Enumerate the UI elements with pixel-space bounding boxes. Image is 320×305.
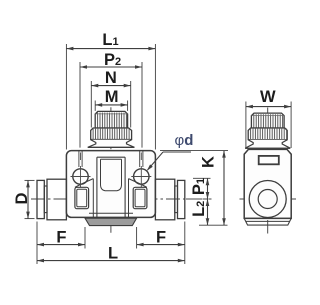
dimension M line (95, 104, 127, 106)
svg-text:L: L (108, 244, 118, 262)
F / L extension lines (36, 222, 38, 265)
side body outline (244, 149, 291, 218)
dimension D extension lines (25, 179, 35, 181)
front vertical centerline (110, 107, 112, 233)
right fitting neck (175, 186, 178, 213)
dimension F left line (37, 244, 85, 246)
svg-text:F: F (156, 229, 166, 247)
front horizontal centerline (31, 198, 212, 200)
bottom boss (shaded) (85, 218, 137, 225)
dimension W line (246, 106, 291, 108)
knob seat line (88, 146, 135, 148)
dimension K extension lines (160, 150, 228, 152)
dimension D line (27, 180, 29, 218)
dimension L2 line (207, 199, 209, 225)
side horizontal centerline (240, 198, 297, 200)
dimension F right line (137, 244, 185, 246)
dimension M extension lines (94, 101, 96, 111)
central valve bore (inner) (101, 159, 122, 191)
dimension W extension lines (245, 102, 247, 149)
screw right (134, 169, 149, 184)
svg-text:φd: φd (175, 132, 194, 149)
svg-text:F: F (56, 229, 66, 247)
body bottom inner line (89, 212, 133, 214)
left fitting release button (37, 180, 44, 218)
dimension L1 line (66, 48, 155, 50)
valve body outline (66, 151, 155, 218)
svg-text:D: D (13, 192, 31, 204)
svg-text:K: K (200, 156, 218, 168)
left window inner (77, 189, 87, 207)
left fitting neck (44, 186, 47, 213)
right fitting release button (178, 180, 185, 218)
dimension L line (37, 260, 185, 262)
right fitting cylinder (155, 179, 174, 220)
side vertical centerline (267, 108, 269, 234)
svg-text:N: N (105, 69, 117, 87)
leader line for phi d (163, 151, 191, 153)
side port inner circle (258, 190, 277, 209)
left screw slot (78, 151, 80, 167)
left screw pocket contour (75, 179, 93, 188)
right window inner (135, 189, 145, 207)
side knob lower knurled band (248, 128, 287, 140)
screw left (73, 169, 88, 184)
knob upper knurled band (95, 111, 127, 128)
dimension P2 line (80, 66, 142, 68)
side knob skirt (245, 140, 290, 148)
svg-text:M: M (105, 88, 119, 106)
right screw slot (139, 151, 141, 167)
side knob upper knurled band (251, 113, 284, 128)
left window outer (75, 187, 89, 208)
knob lower knurled band (91, 128, 132, 140)
dimension N line (91, 85, 130, 87)
dimension P1 extension line (193, 177, 211, 179)
side window (259, 156, 279, 164)
right screw pocket contour (129, 179, 147, 188)
central valve channel walls (96, 157, 98, 217)
side bottom band (244, 217, 291, 219)
dimension L1 extension lines (65, 44, 67, 150)
side knob seat line (245, 147, 290, 149)
side port outer circle (249, 181, 286, 218)
bottom port walls (92, 179, 94, 218)
dimension P2 extension lines (79, 62, 81, 148)
dimension N extension lines (90, 81, 92, 128)
svg-text:W: W (260, 88, 276, 106)
dimension P1 line (207, 178, 209, 199)
knob skirt (88, 140, 135, 148)
dimension K line (223, 151, 225, 226)
left fitting cylinder (47, 179, 66, 220)
right window outer (133, 187, 147, 208)
